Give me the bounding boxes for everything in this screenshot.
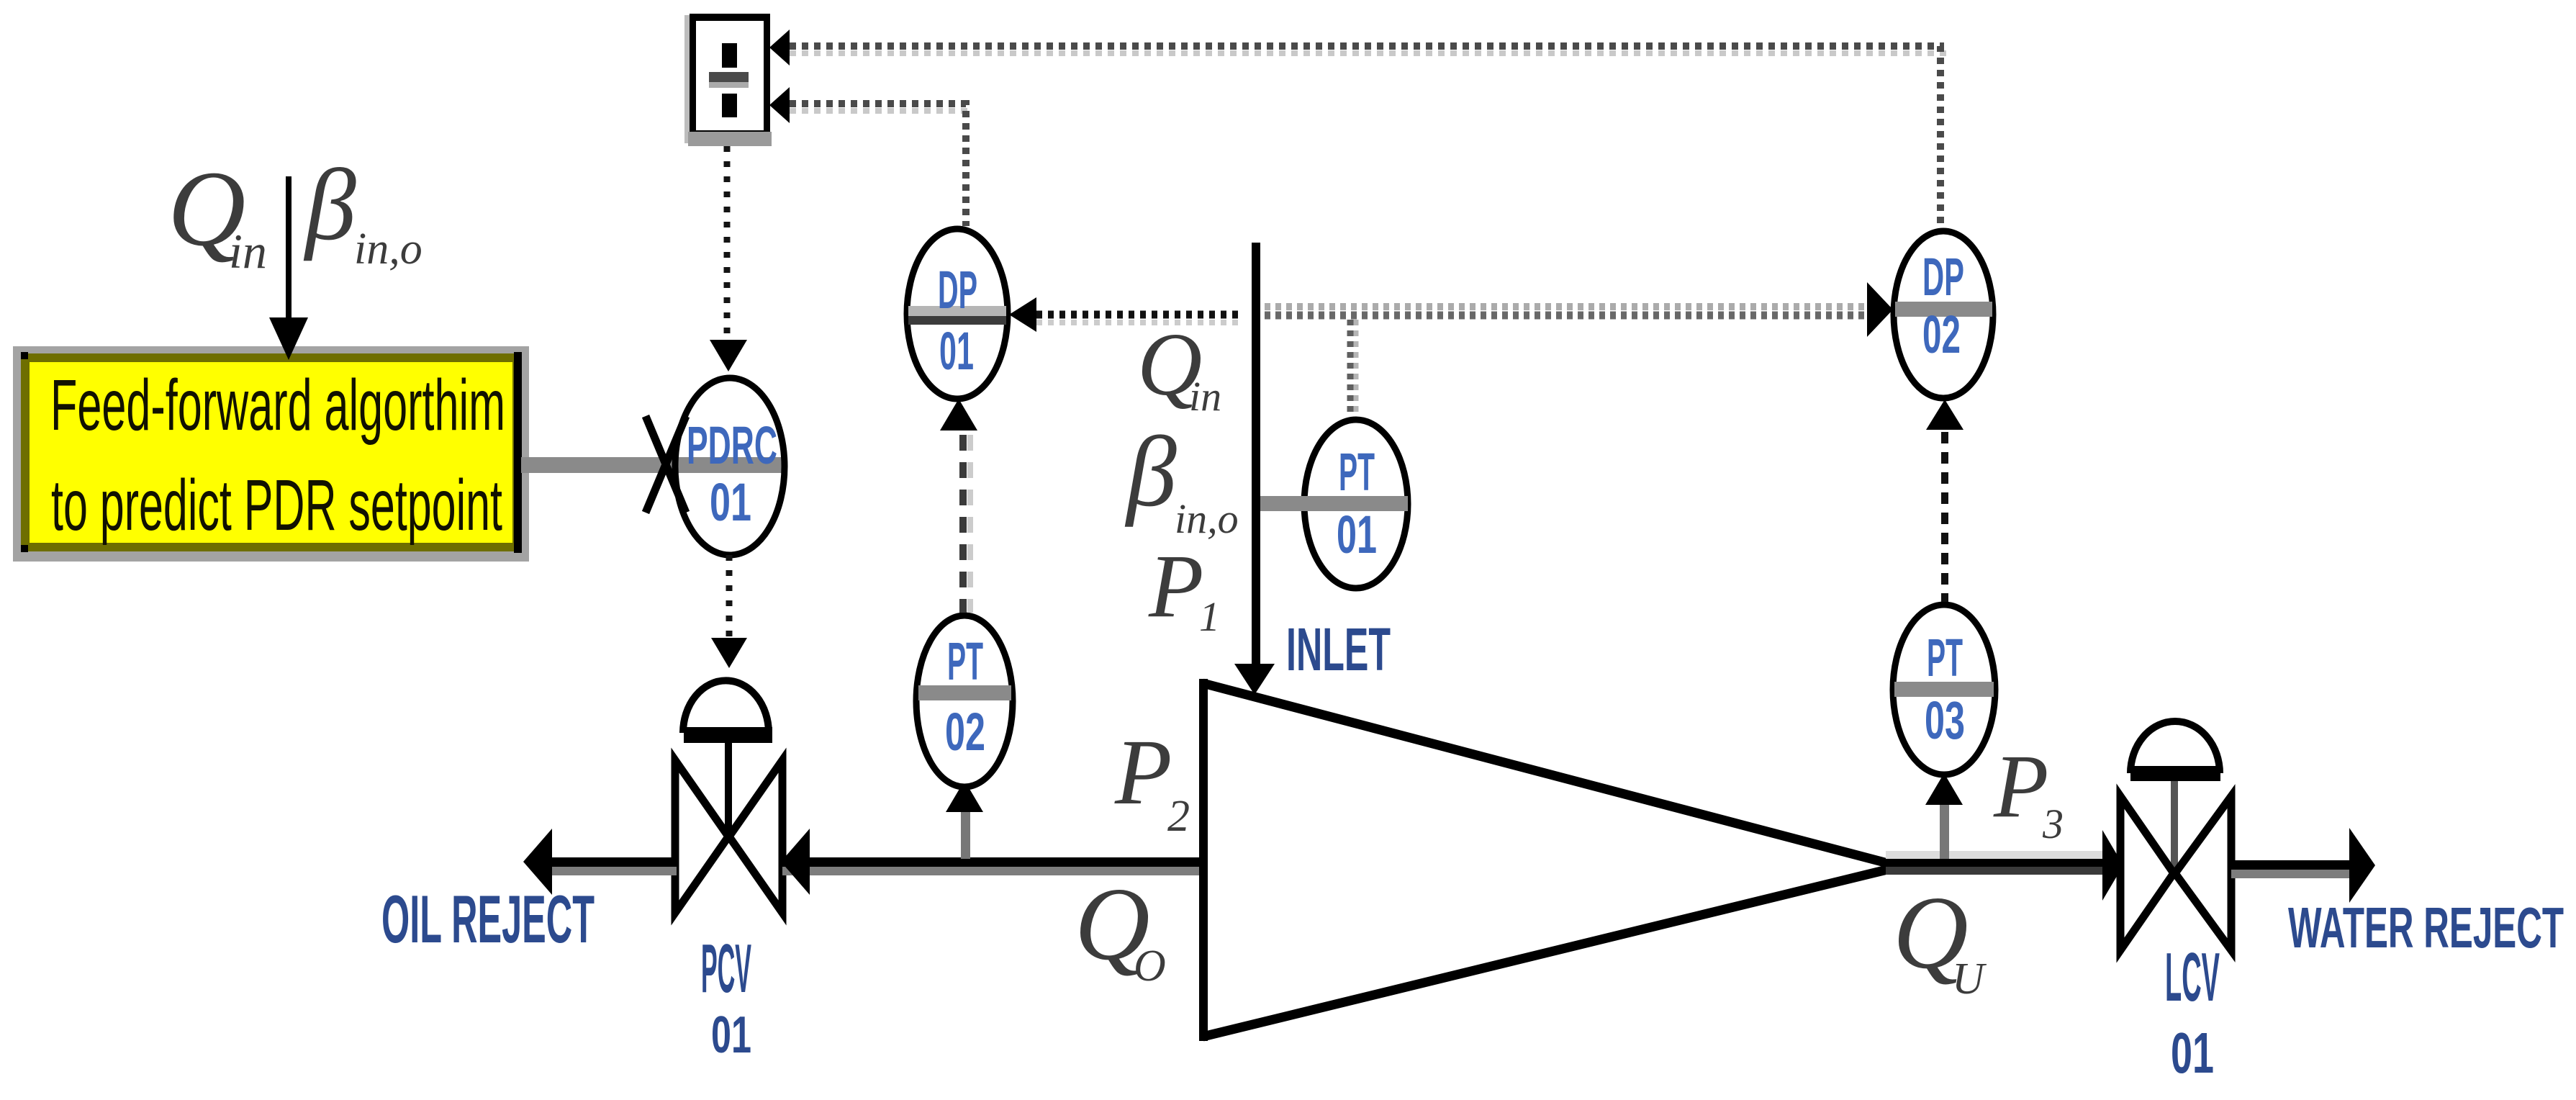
svg-text:in,o: in,o — [1175, 495, 1239, 542]
dashed signal: PT03 to DP02 — [1941, 432, 1948, 602]
svg-text:03: 03 — [1925, 690, 1965, 750]
gray setpoint line from box to PDRC01 with bar through ellipse — [521, 457, 785, 473]
arrowhead into divider input 1 — [769, 30, 790, 66]
svg-text:P: P — [1148, 537, 1203, 636]
transmitter PT 01 — [1260, 420, 1408, 588]
arrow into yellow box — [269, 176, 308, 360]
svg-text:WATER REJECT: WATER REJECT — [2288, 896, 2564, 960]
svg-text:01: 01 — [2171, 1021, 2214, 1085]
svg-text:DP: DP — [938, 260, 977, 320]
arrowhead into DP01 bottom — [940, 399, 977, 430]
svg-text:OIL REJECT: OIL REJECT — [381, 881, 595, 957]
controller PDRC 01 — [675, 378, 785, 555]
svg-text:02: 02 — [945, 702, 985, 762]
pipe: PCV to hydrocyclone with arrowhead into PCV — [781, 829, 1205, 895]
svg-text:U: U — [1952, 955, 1987, 1004]
svg-text:Feed-forward algorthim: Feed-forward algorthim — [50, 365, 505, 446]
pipe: cyclone underflow to LCV — [1886, 830, 2123, 901]
valve PCV 01 — [675, 680, 782, 1064]
gray tap line to PT02 — [961, 811, 970, 859]
svg-text:01: 01 — [939, 321, 974, 381]
dashed signal: inlet line to DP02 — [1265, 307, 1866, 315]
svg-text:DP: DP — [1922, 247, 1964, 307]
arrowhead into DP02 left — [1867, 282, 1893, 337]
arrowhead into cyclone inlet — [1234, 664, 1275, 695]
yellow feed-forward algorithm box — [13, 346, 529, 562]
inlet vertical line — [1252, 243, 1260, 667]
svg-text:1: 1 — [1199, 593, 1220, 640]
transmitter DP 02 — [1894, 231, 1993, 398]
arrowhead onto PCV actuator — [711, 638, 747, 668]
transmitter PT 02 — [916, 616, 1013, 787]
svg-text:P: P — [1114, 721, 1172, 824]
svg-text:in,o: in,o — [354, 225, 422, 274]
arrowhead into PDRC01 top — [710, 340, 747, 371]
arrowhead into divider input 2 — [769, 87, 790, 123]
svg-text:PT: PT — [1927, 628, 1963, 687]
svg-text:PT: PT — [1339, 442, 1375, 502]
divider block — [684, 14, 772, 146]
svg-text:PT: PT — [947, 631, 983, 691]
svg-text:LCV: LCV — [2165, 939, 2220, 1016]
dashed signal: PT02 to DP01 — [963, 435, 970, 613]
svg-text:01: 01 — [711, 1006, 751, 1064]
arrowhead into PT02 bottom — [946, 780, 983, 812]
svg-text:PCV: PCV — [701, 930, 751, 1007]
svg-text:INLET: INLET — [1286, 616, 1391, 683]
dashed signal: DP01 to divider (second run) — [790, 104, 972, 226]
arrowhead into PT03 bottom — [1925, 773, 1963, 805]
svg-text:2: 2 — [1167, 792, 1190, 841]
svg-text:01: 01 — [1337, 505, 1377, 564]
svg-text:PDRC: PDRC — [687, 415, 777, 475]
svg-text:to predict PDR setpoint: to predict PDR setpoint — [51, 465, 502, 546]
svg-text:β: β — [1124, 416, 1177, 528]
svg-text:O: O — [1134, 942, 1166, 991]
X mark on setpoint line — [646, 416, 686, 513]
hydrocyclone body — [1199, 679, 1893, 1041]
gray tap line to PT03 — [1940, 803, 1949, 859]
valve LCV 01 — [2120, 721, 2231, 1085]
dashed drop to PT01 — [1354, 320, 1359, 416]
arrowhead into DP02 bottom — [1926, 400, 1963, 430]
svg-text:3: 3 — [2042, 801, 2064, 847]
svg-text:P: P — [1993, 737, 2048, 837]
svg-text:in: in — [229, 224, 267, 279]
svg-text:β: β — [303, 148, 356, 261]
svg-text:in: in — [1189, 373, 1221, 420]
arrowhead into DP01 right — [1009, 297, 1036, 332]
svg-text:01: 01 — [710, 472, 751, 532]
pipe: oil reject line left of PCV — [523, 829, 677, 895]
transmitter PT 03 — [1893, 605, 1995, 775]
pipe: LCV to water reject — [2231, 828, 2375, 903]
dashed signal: inlet line to DP01 — [1036, 315, 1242, 323]
transmitter DP 01 — [907, 229, 1008, 399]
dashed signal: DP02 to divider (top run) — [790, 46, 1946, 227]
dotted signal: PDRC01 to PCV actuator — [726, 555, 733, 636]
dotted signal: divider to PDRC01 — [724, 146, 731, 337]
svg-text:02: 02 — [1922, 305, 1961, 364]
